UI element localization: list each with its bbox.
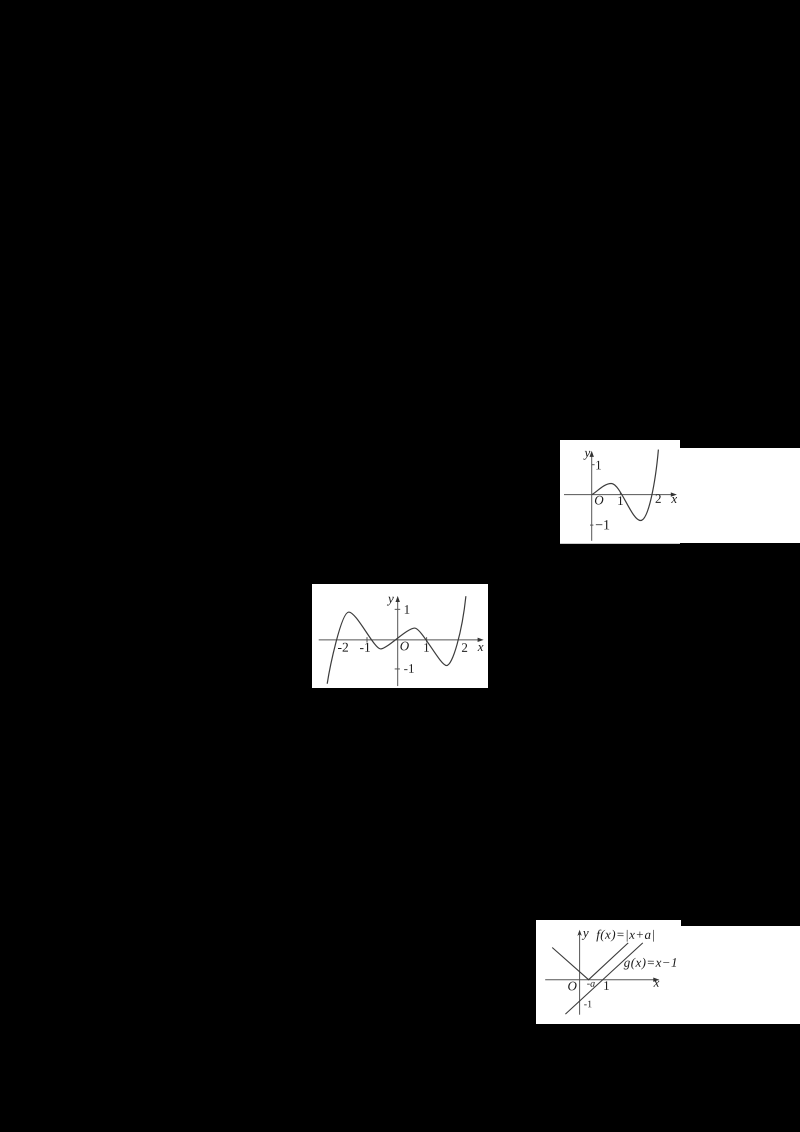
figure 3: f(x)=|x+a| and g(x)=x-1 graph <box>536 920 681 1024</box>
svg-text:2: 2 <box>655 491 662 506</box>
svg-text:1: 1 <box>403 602 410 617</box>
V curve f(x)=|x+a| <box>552 943 628 980</box>
svg-text:−1: −1 <box>595 518 610 533</box>
svg-text:1: 1 <box>595 457 602 472</box>
x-axis arrowhead <box>671 492 677 496</box>
y-axis arrowhead <box>395 596 399 602</box>
y-axis arrowhead <box>577 929 581 935</box>
svg-text:-1: -1 <box>584 999 592 1010</box>
y-axis <box>578 932 580 1014</box>
svg-text:x: x <box>670 491 677 506</box>
figure 2: quintic curve graph <box>312 584 488 688</box>
svg-text:1: 1 <box>423 640 430 655</box>
x-axis arrowhead <box>477 637 483 641</box>
tick x=1 <box>425 637 427 642</box>
svg-text:-1: -1 <box>404 661 415 676</box>
svg-text:1: 1 <box>603 978 610 993</box>
svg-text:y: y <box>386 590 394 605</box>
tick y=1 <box>395 608 400 610</box>
y-axis <box>397 598 399 685</box>
svg-text:y: y <box>583 445 591 460</box>
figure 1: cubic curve graph y=x(x-1)(x-2) style <box>560 440 680 544</box>
svg-text:g(x)=x−1: g(x)=x−1 <box>624 954 678 969</box>
tick y=-1 <box>590 524 593 526</box>
x-axis <box>564 493 674 495</box>
svg-text:x: x <box>477 639 484 654</box>
curve <box>327 596 466 684</box>
y-axis arrowhead <box>590 450 594 456</box>
svg-text:O: O <box>594 492 604 507</box>
tick x=1 <box>619 492 621 495</box>
svg-text:1: 1 <box>617 493 624 508</box>
x-axis <box>545 978 657 980</box>
white band right of figure 1 <box>679 448 800 544</box>
line g(x)=x-1 <box>565 943 642 1014</box>
white band right of figure 3 <box>680 926 800 1024</box>
svg-text:-2: -2 <box>337 639 348 654</box>
x-axis <box>319 639 482 641</box>
svg-text:-a: -a <box>587 978 595 989</box>
svg-text:O: O <box>567 978 577 993</box>
svg-text:-1: -1 <box>359 639 370 654</box>
tick x=-1 <box>366 637 368 642</box>
svg-text:2: 2 <box>461 640 468 655</box>
tick y=-1 <box>395 668 400 670</box>
x-axis arrowhead <box>653 977 659 981</box>
curve <box>592 449 658 520</box>
svg-text:x: x <box>652 974 659 989</box>
y-axis <box>591 455 593 540</box>
svg-text:f(x)=|x+a|: f(x)=|x+a| <box>596 926 655 941</box>
svg-text:O: O <box>400 638 410 653</box>
tick y=1 <box>592 463 595 465</box>
